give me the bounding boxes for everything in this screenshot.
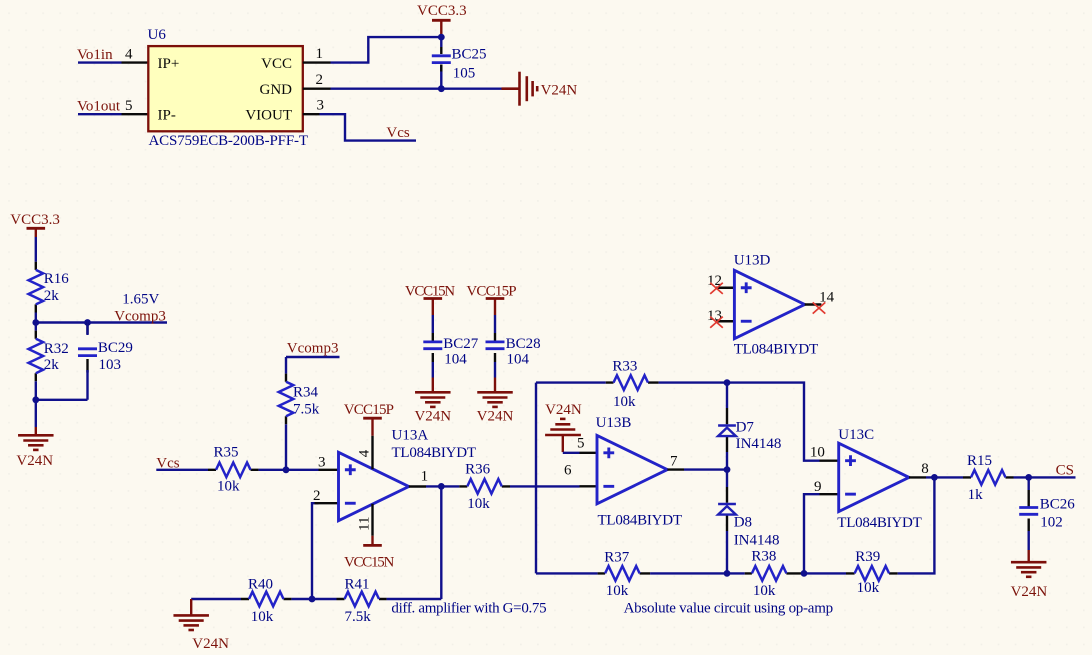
svg-text:2k: 2k bbox=[44, 357, 60, 373]
node junction GND cap bbox=[438, 85, 445, 92]
svg-text:7.5k: 7.5k bbox=[293, 402, 320, 418]
svg-text:V24N: V24N bbox=[541, 83, 578, 99]
capacitor BC26 pins bbox=[1027, 477, 1029, 490]
wire top feedback R33 bbox=[536, 381, 606, 383]
wire R37 to D8 node bbox=[650, 572, 745, 574]
svg-text:U13B: U13B bbox=[596, 415, 632, 431]
op-amp U13A bbox=[339, 452, 409, 520]
svg-text:2k: 2k bbox=[44, 288, 60, 304]
wire net Vo1in bbox=[78, 61, 122, 63]
svg-text:5: 5 bbox=[125, 98, 133, 114]
svg-text:TL084BIYDT: TL084BIYDT bbox=[598, 512, 683, 528]
svg-text:6: 6 bbox=[564, 462, 572, 478]
wire R35 to pin3 bbox=[259, 469, 319, 471]
svg-text:TL084BIYDT: TL084BIYDT bbox=[392, 445, 477, 461]
wire R15 to CS bbox=[1014, 476, 1076, 478]
svg-text:R34: R34 bbox=[293, 385, 319, 401]
capacitor BC27 bbox=[423, 342, 442, 349]
power symbol VCC3.3 left bbox=[27, 228, 46, 237]
pin 6 of U13B bbox=[580, 485, 598, 487]
svg-text:2: 2 bbox=[313, 488, 321, 504]
resistor R35 bbox=[208, 463, 259, 478]
svg-text:R35: R35 bbox=[214, 445, 239, 461]
power symbol VCC3.3 top bbox=[432, 20, 451, 37]
svg-text:VCC15P: VCC15P bbox=[466, 284, 516, 300]
wire VIOUT to Vcs bbox=[320, 114, 417, 140]
ground V24N under BC27 bbox=[415, 378, 451, 407]
wire Vcs to R35 bbox=[156, 469, 208, 471]
svg-text:10k: 10k bbox=[251, 609, 274, 625]
wire ground to R40 bbox=[191, 598, 241, 600]
node junction R38 R39 bbox=[801, 570, 808, 577]
svg-text:11: 11 bbox=[356, 517, 372, 531]
svg-text:5: 5 bbox=[577, 436, 585, 452]
wire bottom feedback left bbox=[536, 572, 598, 574]
svg-text:V24N: V24N bbox=[477, 409, 514, 425]
pin 13 of U13D bbox=[716, 320, 734, 322]
svg-text:BC25: BC25 bbox=[452, 47, 487, 63]
power symbol VCC15P at U13A bbox=[363, 418, 382, 436]
capacitor BC26 bbox=[1019, 508, 1038, 515]
wire output 7 to diode node bbox=[684, 468, 727, 470]
svg-text:R41: R41 bbox=[345, 577, 370, 593]
svg-text:105: 105 bbox=[453, 66, 476, 82]
no-ERC marker pin 13 bbox=[710, 317, 723, 328]
svg-text:1: 1 bbox=[316, 46, 324, 62]
svg-text:U6: U6 bbox=[148, 27, 167, 43]
power symbol VCC15N at U13A bbox=[363, 536, 382, 546]
svg-text:7: 7 bbox=[670, 454, 678, 470]
svg-text:D7: D7 bbox=[736, 420, 755, 436]
svg-text:GND: GND bbox=[260, 82, 293, 98]
wire R39 row bbox=[804, 572, 846, 574]
svg-text:V24N: V24N bbox=[414, 409, 451, 425]
resistor R37 bbox=[598, 566, 651, 581]
svg-text:3: 3 bbox=[318, 455, 326, 471]
svg-text:V24N: V24N bbox=[545, 402, 582, 418]
pin 12 of U13D bbox=[716, 287, 734, 289]
svg-text:V24N: V24N bbox=[192, 636, 229, 652]
svg-text:VIOUT: VIOUT bbox=[245, 107, 292, 123]
svg-text:VCC3.3: VCC3.3 bbox=[417, 3, 467, 19]
wire R16 to R32 bbox=[35, 313, 37, 331]
svg-text:VCC3.3: VCC3.3 bbox=[10, 212, 60, 228]
resistor R41 bbox=[337, 592, 387, 607]
capacitor BC27 pins bbox=[432, 315, 434, 333]
pin 3 of U13A bbox=[319, 469, 339, 471]
svg-text:R15: R15 bbox=[967, 453, 992, 469]
svg-text:CS: CS bbox=[1056, 462, 1074, 478]
power symbol VCC15N bbox=[424, 299, 443, 316]
no-ERC marker pin 12 bbox=[710, 283, 723, 294]
pin 5 of U13B bbox=[580, 452, 598, 454]
wire pin1 to VCC3.3 bbox=[331, 37, 442, 63]
wire R32 to ground bbox=[35, 381, 37, 427]
svg-text:102: 102 bbox=[1040, 515, 1063, 531]
pin 1 of U13A (output) bbox=[409, 485, 426, 487]
svg-text:R37: R37 bbox=[604, 549, 630, 565]
svg-text:8: 8 bbox=[921, 461, 929, 477]
wire ground to pin5 bbox=[563, 452, 580, 454]
svg-text:Vcomp3: Vcomp3 bbox=[114, 309, 166, 325]
wire pin9 riser bbox=[804, 494, 820, 573]
svg-text:10k: 10k bbox=[467, 496, 490, 512]
wire Vcomp3 left bbox=[36, 321, 167, 323]
wire Vcomp3 stub bbox=[286, 357, 340, 374]
diode D8 pins bbox=[726, 470, 728, 574]
ground V24N at BC26 bbox=[1011, 550, 1047, 577]
power symbol VCC15P bbox=[486, 299, 505, 316]
node junction BC29 top bbox=[84, 319, 91, 326]
resistor R15 bbox=[963, 470, 1014, 485]
svg-text:BC27: BC27 bbox=[443, 336, 479, 352]
svg-text:4: 4 bbox=[356, 449, 372, 457]
ground V24N under BC28 bbox=[477, 378, 513, 407]
pin 8 of U13C (output) bbox=[909, 476, 926, 478]
pin 3 of U6 bbox=[303, 113, 320, 115]
svg-text:R33: R33 bbox=[612, 359, 637, 375]
capacitor BC25 pins bbox=[440, 37, 442, 89]
node junction pin8 bbox=[931, 474, 938, 481]
pin 10 of U13C bbox=[820, 459, 839, 461]
svg-text:Vo1out: Vo1out bbox=[77, 99, 121, 115]
wire output to R15 bbox=[926, 476, 963, 478]
wire pin2 riser bbox=[312, 503, 319, 599]
resistor R34 bbox=[279, 374, 294, 425]
svg-text:10k: 10k bbox=[857, 580, 880, 596]
resistor R32 bbox=[29, 331, 44, 382]
pin 4 of U13A (power) bbox=[371, 436, 373, 469]
wire VCC3.3 to R16 bbox=[35, 237, 37, 262]
svg-text:R38: R38 bbox=[751, 548, 776, 564]
svg-text:V24N: V24N bbox=[16, 453, 53, 469]
svg-text:IN4148: IN4148 bbox=[734, 533, 780, 549]
node junction divider mid bbox=[32, 319, 39, 326]
wire R39 to output feedback bbox=[898, 477, 935, 573]
pin 4 of U6 bbox=[122, 61, 149, 63]
svg-text:R39: R39 bbox=[855, 549, 880, 565]
pin 2 of U6 bbox=[303, 87, 331, 89]
svg-text:10k: 10k bbox=[753, 583, 776, 599]
svg-text:V24N: V24N bbox=[1011, 584, 1048, 600]
resistor R36 bbox=[459, 479, 510, 494]
svg-text:BC26: BC26 bbox=[1040, 497, 1076, 513]
svg-text:2: 2 bbox=[316, 72, 324, 88]
pin 7 of U13B (output) bbox=[667, 468, 684, 470]
svg-text:9: 9 bbox=[814, 479, 822, 495]
wire left feedback riser bbox=[535, 383, 537, 574]
ground V24N at R40 bbox=[173, 599, 209, 630]
svg-text:104: 104 bbox=[507, 352, 530, 368]
svg-text:IP+: IP+ bbox=[158, 56, 180, 72]
wire GND row bbox=[331, 87, 502, 89]
svg-text:TL084BIYDT: TL084BIYDT bbox=[734, 342, 819, 358]
diode D7 pins bbox=[726, 383, 728, 470]
op-amp U13D bbox=[734, 270, 804, 338]
wire net Vo1out bbox=[78, 113, 122, 115]
node junction divider bottom bbox=[32, 396, 39, 403]
svg-text:R16: R16 bbox=[44, 271, 70, 287]
svg-text:VCC15N: VCC15N bbox=[405, 284, 455, 300]
capacitor BC25 bbox=[432, 56, 451, 63]
resistor R40 bbox=[241, 592, 291, 607]
wire R41 right to feedback bbox=[387, 598, 442, 600]
wire R40 to node bbox=[291, 598, 336, 600]
resistor R33 bbox=[606, 375, 659, 390]
svg-text:D8: D8 bbox=[734, 515, 752, 531]
svg-text:BC29: BC29 bbox=[98, 340, 133, 356]
svg-text:1.65V: 1.65V bbox=[122, 291, 159, 307]
ground V24N right (rotated) bbox=[502, 72, 538, 106]
ground V24N upside-down at pin5 bbox=[545, 419, 581, 452]
pin 11 of U13A (power) bbox=[371, 504, 373, 536]
pin 1 of U6 bbox=[303, 61, 331, 63]
no-ERC marker pin 14 bbox=[813, 302, 826, 313]
op-amp U13B bbox=[597, 435, 667, 503]
node junction D8 bottom bbox=[724, 570, 731, 577]
svg-text:7.5k: 7.5k bbox=[345, 609, 372, 625]
resistor R38 bbox=[745, 566, 804, 581]
node junction output feedback bbox=[438, 483, 445, 490]
pin 9 of U13C bbox=[820, 493, 839, 495]
svg-text:VCC15N: VCC15N bbox=[344, 555, 394, 571]
diode D7 bbox=[718, 426, 736, 437]
svg-text:R40: R40 bbox=[248, 577, 273, 593]
svg-text:R32: R32 bbox=[44, 341, 69, 357]
op-amp U13C bbox=[839, 443, 909, 511]
svg-text:104: 104 bbox=[444, 352, 467, 368]
svg-text:IN4148: IN4148 bbox=[736, 436, 782, 452]
svg-text:10k: 10k bbox=[606, 583, 629, 599]
svg-text:TL084BIYDT: TL084BIYDT bbox=[837, 515, 922, 531]
pin 14 of U13D (output) bbox=[805, 303, 822, 305]
node junction pin3 bbox=[283, 466, 290, 473]
svg-text:10k: 10k bbox=[217, 479, 240, 495]
node junction diodes mid bbox=[724, 466, 731, 473]
pin 2 of U13A bbox=[315, 502, 339, 504]
svg-text:3: 3 bbox=[317, 98, 325, 114]
svg-text:Vcomp3: Vcomp3 bbox=[287, 340, 339, 356]
wire R34 to pin3 node bbox=[285, 424, 287, 470]
node junction BC26 bbox=[1025, 474, 1032, 481]
svg-text:1k: 1k bbox=[968, 487, 984, 503]
svg-text:R36: R36 bbox=[465, 462, 491, 478]
svg-text:Vcs: Vcs bbox=[386, 125, 409, 141]
wire U13A output bbox=[426, 485, 459, 487]
svg-text:10: 10 bbox=[810, 445, 825, 461]
svg-text:U13D: U13D bbox=[734, 252, 771, 268]
svg-text:IP-: IP- bbox=[158, 107, 176, 123]
svg-text:diff. amplifier with G=0.75: diff. amplifier with G=0.75 bbox=[391, 601, 546, 617]
svg-text:Absolute value circuit using o: Absolute value circuit using op-amp bbox=[624, 601, 834, 617]
wire feedback down bbox=[440, 486, 442, 599]
svg-text:4: 4 bbox=[125, 46, 133, 62]
svg-text:BC28: BC28 bbox=[506, 336, 541, 352]
resistor R39 bbox=[846, 566, 898, 581]
svg-text:U13A: U13A bbox=[392, 428, 429, 444]
wire R33 to pin10 elbow bbox=[659, 383, 820, 461]
capacitor BC29 pins bbox=[86, 323, 88, 373]
node junction R40 R41 bbox=[309, 596, 316, 603]
wire R36 to pin6 bbox=[510, 485, 580, 487]
IC U6 body ACS759 bbox=[148, 46, 302, 131]
svg-text:14: 14 bbox=[819, 289, 835, 305]
svg-text:103: 103 bbox=[99, 357, 122, 373]
svg-text:Vo1in: Vo1in bbox=[77, 47, 113, 63]
pin 5 of U6 bbox=[122, 113, 149, 115]
capacitor BC28 pins bbox=[494, 315, 496, 333]
svg-text:10k: 10k bbox=[613, 394, 636, 410]
node junction VCC bbox=[438, 34, 445, 41]
node junction D7 top bbox=[724, 379, 731, 386]
capacitor BC29 bbox=[78, 349, 97, 356]
diode D8 bbox=[718, 504, 736, 515]
svg-text:ACS759ECB-200B-PFF-T: ACS759ECB-200B-PFF-T bbox=[149, 133, 309, 149]
svg-text:1: 1 bbox=[421, 469, 429, 485]
resistor R16 bbox=[29, 262, 44, 313]
svg-text:VCC15P: VCC15P bbox=[344, 402, 394, 418]
svg-text:VCC: VCC bbox=[261, 56, 292, 72]
svg-text:U13C: U13C bbox=[838, 427, 874, 443]
capacitor BC28 bbox=[486, 342, 505, 349]
ground V24N left bbox=[18, 427, 54, 450]
